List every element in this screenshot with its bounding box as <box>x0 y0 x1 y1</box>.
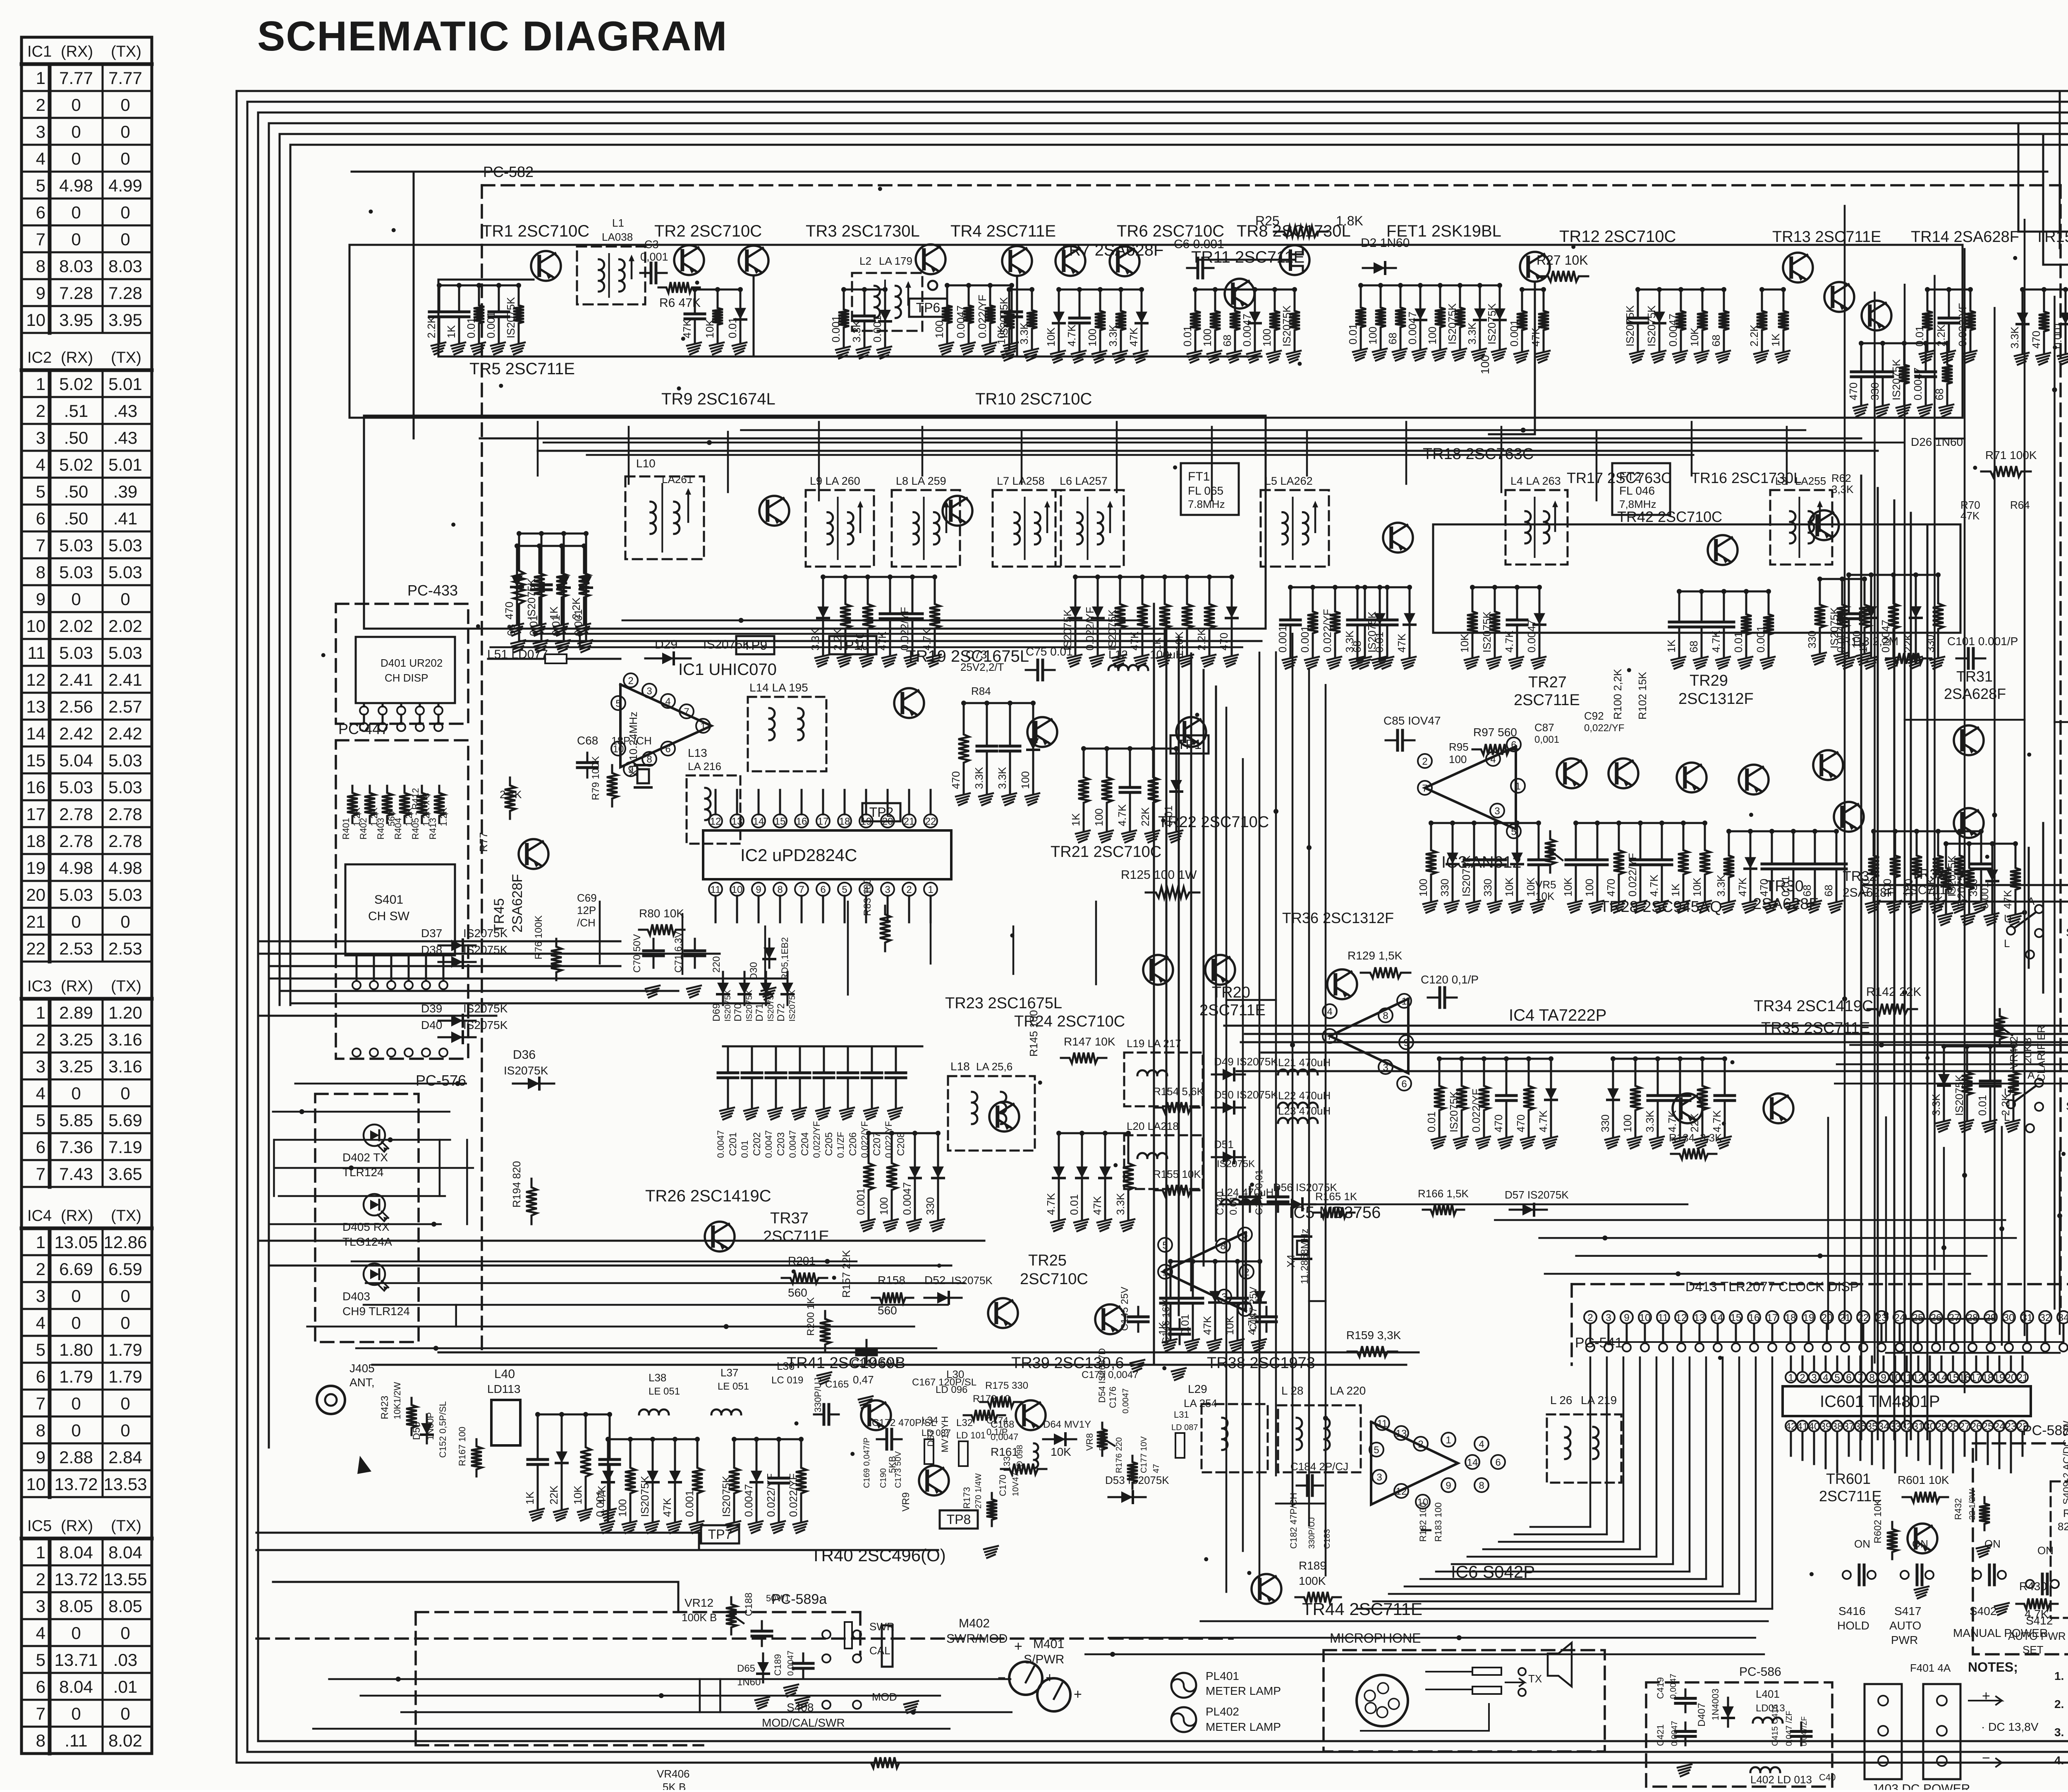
svg-text:3.3K: 3.3K <box>1343 630 1356 653</box>
svg-text:D402 TX: D402 TX <box>342 1151 388 1164</box>
svg-text:0.0047: 0.0047 <box>1525 620 1538 653</box>
svg-text:7.28: 7.28 <box>108 283 142 303</box>
svg-text:S417: S417 <box>1894 1605 1921 1617</box>
svg-text:.50: .50 <box>64 509 88 528</box>
svg-text:FT1: FT1 <box>1188 470 1210 483</box>
svg-text:2: 2 <box>36 1259 45 1279</box>
svg-text:100: 100 <box>933 321 945 338</box>
svg-text:−: − <box>1982 1750 1990 1766</box>
svg-text:38: 38 <box>1832 1421 1843 1432</box>
svg-text:IS2075K: IS2075K <box>951 1274 993 1287</box>
svg-text:0: 0 <box>120 95 130 115</box>
svg-text:C85 IOV47: C85 IOV47 <box>1383 714 1441 727</box>
svg-text:22: 22 <box>26 939 45 958</box>
svg-text:L1: L1 <box>612 217 624 229</box>
svg-text:5.03: 5.03 <box>108 778 142 797</box>
svg-text:10: 10 <box>26 310 45 330</box>
svg-text:D38: D38 <box>421 943 442 956</box>
svg-text:2.2K: 2.2K <box>425 316 438 338</box>
svg-text:0,001: 0,001 <box>1534 734 1559 745</box>
svg-text:35: 35 <box>1867 1421 1878 1432</box>
svg-text:0,022/YF: 0,022/YF <box>811 1121 822 1158</box>
svg-text:39: 39 <box>1820 1421 1831 1432</box>
svg-text:47K: 47K <box>681 319 693 338</box>
svg-text:TP8: TP8 <box>947 1512 971 1527</box>
svg-text:IS2075K: IS2075K <box>745 990 754 1022</box>
svg-text:D413 TLR2077 CLOCK DISP: D413 TLR2077 CLOCK DISP <box>1685 1279 1859 1294</box>
svg-text:10: 10 <box>732 884 743 895</box>
svg-text:5.01: 5.01 <box>108 374 142 394</box>
svg-text:22K: 22K <box>548 1485 560 1505</box>
svg-text:3.3K: 3.3K <box>973 767 985 789</box>
svg-text:0: 0 <box>71 1394 81 1413</box>
svg-text:C170: C170 <box>998 1474 1008 1496</box>
svg-text:7: 7 <box>36 1704 45 1723</box>
svg-text:IS2075K: IS2075K <box>1486 303 1498 345</box>
svg-text:0: 0 <box>120 1084 130 1103</box>
svg-text:19: 19 <box>26 858 45 878</box>
svg-text:C70 50V: C70 50V <box>632 934 643 973</box>
svg-text:0: 0 <box>120 1623 130 1643</box>
svg-text:C419: C419 <box>1655 1677 1666 1699</box>
svg-text:C68: C68 <box>577 734 598 747</box>
svg-text:L13: L13 <box>688 746 707 759</box>
svg-text:5: 5 <box>36 1110 45 1130</box>
svg-text:2.02: 2.02 <box>108 616 142 636</box>
svg-text:5.03: 5.03 <box>59 885 93 904</box>
svg-text:68: 68 <box>1687 641 1700 653</box>
svg-text:IS2075K: IS2075K <box>1955 868 1967 909</box>
svg-text:100K B: 100K B <box>682 1611 717 1624</box>
svg-text:10V47: 10V47 <box>1011 1472 1020 1496</box>
svg-text:470: 470 <box>1492 1115 1505 1132</box>
svg-text:LD 096: LD 096 <box>936 1384 967 1395</box>
svg-text:47K: 47K <box>1395 633 1408 653</box>
svg-text:R64: R64 <box>2010 499 2030 511</box>
svg-text:7.8MHz: 7.8MHz <box>1188 498 1225 510</box>
svg-text:TR25: TR25 <box>1028 1252 1067 1269</box>
svg-text:0,001: 0,001 <box>640 251 668 263</box>
svg-text:5: 5 <box>842 884 847 895</box>
svg-text:5: 5 <box>1511 826 1516 837</box>
svg-text:LA255: LA255 <box>1795 475 1826 487</box>
svg-text:10K: 10K <box>704 319 716 338</box>
svg-text:D65: D65 <box>737 1663 755 1674</box>
svg-text:0,47: 0,47 <box>853 1373 874 1386</box>
svg-text:2.78: 2.78 <box>108 804 142 824</box>
svg-text:0: 0 <box>120 912 130 931</box>
svg-text:32: 32 <box>1901 1421 1912 1432</box>
svg-text:C174: C174 <box>986 1415 1008 1426</box>
svg-text:13.72: 13.72 <box>54 1474 98 1494</box>
svg-text:3.25: 3.25 <box>59 1030 93 1049</box>
svg-text:100: 100 <box>616 1499 629 1517</box>
svg-text:5.03: 5.03 <box>108 562 142 582</box>
svg-text:R413: R413 <box>428 818 438 840</box>
svg-text:+: + <box>1074 1687 1082 1702</box>
svg-text:8: 8 <box>36 256 45 276</box>
svg-text:10K: 10K <box>1045 327 1057 347</box>
svg-text:5.03: 5.03 <box>108 751 142 770</box>
svg-text:S409-2 AC/DC SW: S409-2 AC/DC SW <box>2061 1421 2068 1505</box>
svg-text:IS2075K: IS2075K <box>1645 305 1658 347</box>
svg-text:(TX): (TX) <box>111 978 141 995</box>
svg-text:2.53: 2.53 <box>108 939 142 958</box>
svg-text:C73: C73 <box>966 648 987 661</box>
svg-text:3.3K: 3.3K <box>1930 1093 1942 1116</box>
svg-text:R189: R189 <box>1299 1559 1326 1572</box>
svg-text:L9 LA 260: L9 LA 260 <box>810 475 860 487</box>
svg-text:12: 12 <box>26 670 45 689</box>
svg-text:1: 1 <box>1162 1267 1168 1278</box>
svg-text:20: 20 <box>882 816 893 827</box>
svg-text:17: 17 <box>26 804 45 824</box>
svg-text:R403: R403 <box>376 818 386 840</box>
svg-text:TR27: TR27 <box>1528 674 1567 691</box>
svg-text:8: 8 <box>1220 1241 1225 1252</box>
svg-text:IS2075K: IS2075K <box>788 990 797 1022</box>
svg-text:3: 3 <box>885 884 890 895</box>
svg-text:42: 42 <box>1786 1421 1797 1432</box>
svg-text:D39: D39 <box>421 1002 442 1015</box>
svg-text:8: 8 <box>646 754 652 765</box>
svg-text:LE 051: LE 051 <box>718 1381 749 1392</box>
svg-text:TR39 2SC130,6: TR39 2SC130,6 <box>1011 1354 1124 1372</box>
svg-text:4.98: 4.98 <box>59 858 93 878</box>
svg-text:D40: D40 <box>421 1019 442 1031</box>
svg-text:13: 13 <box>1924 1372 1936 1383</box>
svg-text:C207: C207 <box>871 1132 883 1156</box>
svg-text:R432: R432 <box>1953 1498 1963 1520</box>
svg-text:TR10 2SC710C: TR10 2SC710C <box>975 390 1092 408</box>
svg-text:5: 5 <box>1374 1445 1379 1456</box>
svg-text:4.7K: 4.7K <box>1537 1110 1549 1132</box>
svg-text:3.3K: 3.3K <box>2008 326 2021 349</box>
svg-text:IC4 TA7222P: IC4 TA7222P <box>1509 1006 1606 1024</box>
svg-text:LA 220: LA 220 <box>1330 1384 1366 1397</box>
svg-text:8: 8 <box>36 1731 45 1750</box>
svg-text:0,022/YF: 0,022/YF <box>1584 723 1624 734</box>
svg-text:47K: 47K <box>2001 890 2014 909</box>
svg-text:L37: L37 <box>720 1366 738 1379</box>
svg-text:LE 051: LE 051 <box>649 1386 680 1397</box>
svg-text:2.89: 2.89 <box>59 1003 93 1022</box>
svg-text:NOTES;: NOTES; <box>1968 1660 2018 1675</box>
svg-text:1.79: 1.79 <box>108 1340 142 1359</box>
svg-text:330: 330 <box>1482 879 1494 897</box>
svg-text:50V/1: 50V/1 <box>766 1593 790 1603</box>
svg-text:TP6: TP6 <box>916 300 941 315</box>
svg-text:2: 2 <box>36 1569 45 1589</box>
svg-text:13: 13 <box>1396 1428 1407 1439</box>
svg-text:470: 470 <box>1758 879 1770 897</box>
svg-text:R27 10K: R27 10K <box>1537 253 1588 268</box>
svg-text:D403: D403 <box>342 1290 370 1303</box>
svg-text:1: 1 <box>1401 996 1407 1007</box>
svg-text:0.001: 0.001 <box>485 311 497 338</box>
svg-text:18: 18 <box>26 831 45 851</box>
svg-text:.01: .01 <box>113 1677 137 1696</box>
svg-text:L3: L3 <box>1775 475 1787 487</box>
svg-text:4.7K: 4.7K <box>1246 1313 1258 1335</box>
svg-text:TR40 2SC496(O): TR40 2SC496(O) <box>811 1546 946 1565</box>
svg-text:IC601 TM4801P: IC601 TM4801P <box>1820 1392 1940 1411</box>
svg-text:10: 10 <box>1890 1372 1901 1383</box>
svg-text:21: 21 <box>904 816 915 827</box>
svg-text:ON: ON <box>1854 1538 1870 1550</box>
svg-text:CH SW: CH SW <box>368 909 410 923</box>
svg-text:L2: L2 <box>859 255 871 267</box>
svg-text:1: 1 <box>700 721 706 732</box>
svg-text:0: 0 <box>71 589 81 609</box>
svg-text:PL402: PL402 <box>1206 1705 1239 1718</box>
svg-text:TX: TX <box>1528 1672 1542 1685</box>
svg-text:VR12: VR12 <box>685 1596 713 1609</box>
svg-text:IS2075K: IS2075K <box>463 1002 508 1015</box>
svg-text:12: 12 <box>1396 1486 1407 1497</box>
svg-text:14: 14 <box>753 816 764 827</box>
svg-text:100: 100 <box>1621 1115 1634 1132</box>
svg-text:16: 16 <box>26 778 45 797</box>
svg-text:L12: L12 <box>1108 648 1128 661</box>
svg-text:11: 11 <box>1377 1418 1388 1429</box>
svg-text:IS2075K: IS2075K <box>720 1476 732 1517</box>
svg-text:IC1: IC1 <box>27 43 52 60</box>
svg-text:2: 2 <box>36 401 45 421</box>
svg-text:R405 - R412: R405 - R412 <box>410 788 421 840</box>
svg-text:SWR/MOD: SWR/MOD <box>946 1632 1008 1646</box>
svg-text:27: 27 <box>1949 1312 1960 1323</box>
svg-text:IS2075K: IS2075K <box>463 1019 508 1031</box>
svg-text:10K: 10K <box>572 1485 584 1505</box>
svg-text:C415 C416: C415 C416 <box>1771 1704 1780 1746</box>
svg-text:0.001: 0.001 <box>572 609 584 636</box>
svg-text:0.0047: 0.0047 <box>716 1130 726 1158</box>
svg-text:R125 100 1W: R125 100 1W <box>1121 868 1197 882</box>
svg-text:5.01: 5.01 <box>108 455 142 474</box>
svg-text:.50: .50 <box>64 482 88 501</box>
svg-text:68: 68 <box>1386 333 1399 345</box>
svg-text:1N4003: 1N4003 <box>1710 1689 1721 1720</box>
svg-text:IC4: IC4 <box>27 1207 52 1225</box>
svg-text:0: 0 <box>71 1704 81 1723</box>
svg-text:6: 6 <box>36 1677 45 1696</box>
svg-text:L14 LA 195: L14 LA 195 <box>749 681 808 694</box>
svg-text:IS2075K: IS2075K <box>1953 1074 1965 1116</box>
svg-text:L19 LA 217: L19 LA 217 <box>1127 1037 1181 1050</box>
svg-text:47K: 47K <box>1736 877 1749 897</box>
svg-text:R62: R62 <box>1831 472 1851 484</box>
svg-text:L38: L38 <box>649 1371 666 1384</box>
svg-text:1: 1 <box>36 1003 45 1022</box>
svg-text:PC-586: PC-586 <box>1739 1665 1781 1679</box>
svg-text:IS2075K: IS2075K <box>1281 305 1293 347</box>
svg-text:4.7K: 4.7K <box>1045 1193 1057 1215</box>
svg-text:7.28: 7.28 <box>59 283 93 303</box>
svg-text:R76 100K: R76 100K <box>533 915 544 959</box>
svg-text:R100 2,2K: R100 2,2K <box>1611 668 1624 720</box>
svg-text:L401: L401 <box>1756 1688 1780 1700</box>
svg-text:R113 2,2M: R113 2,2M <box>1843 635 1898 648</box>
svg-text:L18: L18 <box>950 1060 970 1073</box>
svg-text:LD 101: LD 101 <box>956 1430 986 1440</box>
svg-text:6: 6 <box>1401 1079 1407 1090</box>
svg-text:3.3K: 3.3K <box>1107 324 1119 347</box>
svg-text:8: 8 <box>1479 1480 1484 1491</box>
svg-text:5: 5 <box>36 1340 45 1359</box>
svg-text:12: 12 <box>1676 1312 1687 1323</box>
svg-text:13.53: 13.53 <box>103 1474 147 1494</box>
svg-text:3: 3 <box>1606 1312 1611 1323</box>
svg-text:D36: D36 <box>513 1048 536 1062</box>
svg-text:20: 20 <box>26 885 45 904</box>
svg-text:3.25: 3.25 <box>59 1057 93 1076</box>
svg-text:R80 10K: R80 10K <box>639 907 684 920</box>
svg-text:+: + <box>1982 1688 1990 1704</box>
svg-text:−: − <box>998 1670 1006 1686</box>
svg-text:23: 23 <box>2006 1421 2017 1432</box>
svg-text:R401: R401 <box>341 818 351 840</box>
svg-text:0: 0 <box>71 203 81 222</box>
svg-text:C169 0,047/P: C169 0,047/P <box>862 1438 871 1488</box>
svg-text:1: 1 <box>1515 781 1520 792</box>
svg-text:15: 15 <box>775 816 786 827</box>
svg-text:2: 2 <box>1418 1439 1423 1450</box>
svg-text:R147 10K: R147 10K <box>1064 1035 1115 1048</box>
svg-text:R154 5,6K: R154 5,6K <box>1153 1085 1204 1098</box>
svg-text:D52: D52 <box>924 1274 945 1287</box>
svg-text:8.04: 8.04 <box>108 1543 142 1562</box>
svg-text:2.41: 2.41 <box>108 670 142 689</box>
svg-text:3: 3 <box>36 1286 45 1306</box>
svg-text:4: 4 <box>1490 754 1496 765</box>
svg-text:D49 IS2075K: D49 IS2075K <box>1214 1055 1278 1068</box>
svg-text:R79 100K: R79 100K <box>590 756 601 800</box>
svg-text:IS2075K: IS2075K <box>1624 305 1636 347</box>
svg-text:R404: R404 <box>393 818 403 840</box>
svg-text:28: 28 <box>1967 1312 1978 1323</box>
svg-text:1: 1 <box>36 1543 45 1562</box>
svg-text:C92: C92 <box>1584 710 1604 722</box>
svg-text:3: 3 <box>36 428 45 447</box>
svg-text:7.36: 7.36 <box>59 1137 93 1157</box>
svg-text:7: 7 <box>1327 1031 1332 1042</box>
svg-text:22 1/2W: 22 1/2W <box>1968 1489 1977 1520</box>
svg-text:TR9 2SC1674L: TR9 2SC1674L <box>661 390 775 408</box>
svg-text:1.79: 1.79 <box>108 1367 142 1386</box>
svg-text:C40: C40 <box>1819 1772 1836 1782</box>
svg-text:LA038: LA038 <box>602 231 633 243</box>
svg-text:0.0047: 0.0047 <box>1667 313 1679 347</box>
svg-text:M401: M401 <box>1033 1637 1064 1651</box>
svg-text:0.022/YF: 0.022/YF <box>976 294 989 338</box>
svg-text:0.01: 0.01 <box>465 317 477 338</box>
svg-text:4.7K: 4.7K <box>1116 804 1128 826</box>
svg-text:.43: .43 <box>113 428 137 447</box>
svg-text:14: 14 <box>26 724 45 743</box>
svg-text:6.59: 6.59 <box>108 1259 142 1279</box>
svg-text:D2 1N60: D2 1N60 <box>1361 236 1410 250</box>
svg-text:IC2 uPD2824C: IC2 uPD2824C <box>740 845 857 865</box>
svg-text:IS2075K: IS2075K <box>1106 609 1118 651</box>
svg-text:20: 20 <box>1821 1312 1833 1323</box>
svg-text:21: 21 <box>2017 1372 2028 1383</box>
svg-text:L8 LA 259: L8 LA 259 <box>896 475 946 487</box>
svg-text:R430: R430 <box>2019 1580 2047 1593</box>
svg-text:7.77: 7.77 <box>59 68 93 88</box>
svg-text:17: 17 <box>1767 1312 1778 1323</box>
svg-text:0: 0 <box>71 149 81 168</box>
svg-text:10: 10 <box>26 616 45 636</box>
svg-text:TR20: TR20 <box>1212 984 1250 1001</box>
svg-text:10K: 10K <box>1691 877 1703 897</box>
svg-text:CH9 TLR124: CH9 TLR124 <box>342 1305 410 1318</box>
svg-text:100: 100 <box>1426 327 1439 345</box>
svg-text:C6 0.001: C6 0.001 <box>1174 237 1224 251</box>
svg-text:R200 1K: R200 1K <box>805 1297 816 1336</box>
svg-text:1.2K: 1.2K <box>438 807 449 826</box>
svg-text:30: 30 <box>1924 1421 1936 1432</box>
svg-text:IS2075K: IS2075K <box>723 990 732 1022</box>
svg-text:0.001: 0.001 <box>830 316 842 342</box>
svg-text:10K: 10K <box>1503 877 1515 897</box>
svg-text:1.: 1. <box>2054 1670 2064 1682</box>
svg-text:IS2075K: IS2075K <box>1061 609 1074 651</box>
svg-text:TP10: TP10 <box>837 638 869 653</box>
svg-text:0.001: 0.001 <box>1978 882 1991 909</box>
svg-text:C87: C87 <box>1534 721 1554 734</box>
svg-text:LD 098: LD 098 <box>1015 1445 1024 1472</box>
svg-text:47K: 47K <box>1127 327 1140 347</box>
svg-text:2: 2 <box>1800 1372 1805 1383</box>
svg-text:5.04: 5.04 <box>59 751 93 770</box>
svg-text:X4: X4 <box>1285 1254 1297 1268</box>
svg-text:C101 0.001/P: C101 0.001/P <box>1947 635 2018 648</box>
svg-text:100: 100 <box>1093 809 1105 826</box>
svg-text:(RX): (RX) <box>61 43 93 60</box>
svg-text:C205: C205 <box>823 1132 835 1156</box>
svg-text:2SC1312F: 2SC1312F <box>1678 690 1754 708</box>
svg-text:R165 1K: R165 1K <box>1315 1190 1357 1203</box>
svg-text:4: 4 <box>36 1623 45 1643</box>
svg-text:C120 0,1/P: C120 0,1/P <box>1421 973 1479 986</box>
svg-text:MOD: MOD <box>872 1691 897 1703</box>
svg-text:21: 21 <box>26 912 45 931</box>
svg-text:.39: .39 <box>113 482 137 501</box>
svg-text:19: 19 <box>861 816 872 827</box>
svg-text:4.7K: 4.7K <box>1503 630 1515 653</box>
svg-text:0.01: 0.01 <box>1732 632 1745 653</box>
svg-text:270 1/4W: 270 1/4W <box>974 1473 983 1509</box>
svg-text:2SC711E: 2SC711E <box>1514 691 1580 709</box>
svg-text:VR8: VR8 <box>1084 1433 1095 1451</box>
svg-text:4.: 4. <box>2054 1754 2064 1767</box>
svg-text:5: 5 <box>615 698 621 709</box>
svg-text:22: 22 <box>1858 1312 1869 1323</box>
svg-text:LD 087: LD 087 <box>922 1428 951 1438</box>
svg-text:6: 6 <box>665 744 670 755</box>
svg-text:47: 47 <box>1152 1464 1161 1473</box>
svg-text:8: 8 <box>1383 1010 1388 1022</box>
svg-text:TR26 2SC1419C: TR26 2SC1419C <box>645 1187 771 1205</box>
svg-text:ANT,: ANT, <box>349 1376 375 1389</box>
svg-text:13.72: 13.72 <box>54 1569 98 1589</box>
svg-text:LA 179: LA 179 <box>879 255 912 267</box>
svg-text:3: 3 <box>1811 1372 1817 1383</box>
svg-text:9: 9 <box>1403 1037 1409 1048</box>
svg-text:6: 6 <box>820 884 826 895</box>
svg-text:8: 8 <box>36 562 45 582</box>
